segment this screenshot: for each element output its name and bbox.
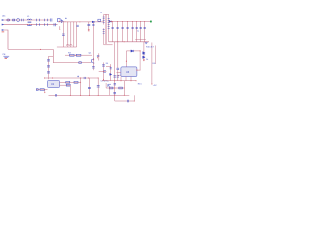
- resistor R16 on mid row: [103, 71, 106, 73]
- wire primary drop 3: [73, 22, 75, 47]
- svg-text:+5V: +5V: [153, 85, 157, 87]
- junction fb cross: [114, 88, 115, 89]
- junction sense drop: [126, 61, 127, 62]
- transformer T1 top link: [104, 13, 109, 15]
- capacitor C21: [102, 65, 105, 66]
- wire cs pin row: [60, 84, 71, 86]
- svg-text:R15: R15: [138, 84, 143, 86]
- resistor R7: [74, 81, 78, 83]
- wire opto branch: [117, 42, 119, 68]
- node VOUT terminal: [150, 21, 152, 23]
- wire mid corner: [106, 65, 111, 67]
- wire PE rail: [8, 48, 53, 50]
- junction mid a: [103, 71, 104, 72]
- wire mid row: [99, 71, 107, 73]
- junction U3 right: [136, 70, 137, 71]
- junction bridge out: [59, 21, 60, 22]
- capacitor C16: [140, 21, 142, 42]
- common-mode choke L1 top winding: [27, 19, 31, 20]
- junction choke: [26, 23, 29, 26]
- capacitor C12: [122, 21, 124, 42]
- junction D2: [111, 21, 112, 22]
- diode D4: [110, 73, 112, 75]
- wire lower row: [115, 100, 135, 102]
- connector pin PE: [2, 29, 4, 31]
- wire U3 bottom rail: [102, 80, 136, 82]
- transistor Q1: [92, 59, 95, 64]
- capacitor C11: [117, 21, 119, 42]
- capacitor C15: [136, 21, 138, 42]
- junction vdd3: [88, 77, 89, 78]
- capacitor C24 pair b: [117, 76, 119, 77]
- transformer T1 primary winding: [103, 14, 105, 24]
- wire N bottom: [4, 24, 58, 26]
- zener ZD1 chain: [143, 42, 145, 61]
- wire sense vertical: [98, 53, 100, 60]
- junction rail3: [89, 95, 90, 96]
- wire fb drop: [123, 81, 125, 96]
- wire right aux vertical: [155, 46, 157, 65]
- connector pin N: [2, 24, 4, 26]
- capacitor C23 on drop4: [76, 25, 78, 26]
- junction lower row: [134, 101, 135, 102]
- junction rail4: [98, 95, 99, 96]
- capacitor C18 on vertical: [113, 92, 116, 93]
- wire vdd top row: [44, 77, 98, 79]
- wire secondary ground rail: [109, 41, 149, 43]
- junction fb row: [124, 88, 125, 89]
- bridge rectifier BD1: [50, 19, 63, 27]
- wire U3 pin drop 2: [125, 77, 127, 81]
- wire output bus: [109, 21, 150, 23]
- capacitor CX1: [22, 19, 24, 21]
- junction Q1: [93, 59, 94, 60]
- wire primary drop 4: [76, 22, 78, 47]
- junction drop1: [66, 21, 69, 24]
- wire sense drop: [125, 51, 127, 67]
- wire lower stub: [133, 95, 135, 101]
- junction vdd0: [44, 78, 45, 79]
- junction br1: [114, 80, 115, 81]
- junction br4: [136, 80, 137, 81]
- junction vdd2: [80, 77, 81, 78]
- node bridge plus: [65, 18, 66, 19]
- resistor R3: [70, 54, 75, 56]
- resistor R9: [40, 89, 44, 91]
- resistor R4: [76, 54, 81, 56]
- wire start drop: [44, 90, 46, 94]
- resistor R5: [97, 55, 99, 56]
- wire mid column b: [110, 64, 112, 81]
- wire primary drop 1: [67, 22, 69, 47]
- wire cap chain top: [49, 55, 54, 57]
- wire primary drop 2: [70, 22, 72, 47]
- junction vcc row: [75, 55, 76, 56]
- common-mode choke L1 core: [28, 21, 32, 24]
- junction br3: [131, 80, 132, 81]
- diode D1: [92, 21, 94, 23]
- svg-text:PE: PE: [3, 54, 6, 56]
- resistor R8: [66, 84, 70, 86]
- junction bridge minus: [58, 28, 61, 31]
- wire bridge to verticals: [58, 21, 104, 23]
- svg-text:1u: 1u: [137, 30, 139, 32]
- junction PE rail: [40, 49, 41, 50]
- transformer T1 aux winding: [103, 28, 105, 35]
- svg-text:R10 4k7: R10 4k7: [146, 46, 155, 48]
- transformer T1 secondary winding: [108, 14, 110, 42]
- capacitor C22: [110, 68, 112, 69]
- capacitor CX2: [37, 19, 40, 26]
- capacitor C5: [88, 78, 91, 95]
- capacitor chain Y1: [47, 56, 50, 79]
- resistor R6: [66, 81, 70, 83]
- wire L top: [4, 19, 50, 21]
- svg-text:L1: L1: [27, 16, 30, 18]
- junction br2: [121, 80, 122, 81]
- connector pin L: [2, 19, 4, 21]
- wire feedback left vertical: [114, 42, 116, 101]
- svg-text:AC: AC: [2, 15, 5, 18]
- capacitor C4 series: [84, 77, 85, 79]
- junction vdd1: [52, 77, 53, 78]
- wire aux corner: [53, 49, 91, 62]
- wire vdd drop: [80, 78, 82, 95]
- capacitor C6: [97, 78, 100, 96]
- wire start pin: [37, 89, 48, 91]
- wire opto drop: [108, 87, 110, 95]
- capacitor C20: [127, 100, 128, 103]
- junction rail2: [80, 95, 81, 96]
- opto U2: [108, 84, 111, 87]
- capacitor C1 bulk vertical: [62, 22, 65, 47]
- capacitor C3 on drain: [92, 24, 94, 25]
- junction rail a: [117, 41, 118, 42]
- IC U3: [121, 67, 137, 77]
- wire mid column a: [103, 62, 105, 80]
- wire opto left stub: [105, 83, 107, 88]
- junction bulk top: [64, 20, 67, 23]
- wire sense row: [126, 50, 140, 52]
- wire cs drop: [69, 85, 71, 95]
- IC U1: [48, 81, 60, 88]
- svg-text:Q1: Q1: [89, 52, 93, 54]
- node PE red mark: [2, 31, 5, 33]
- wire PE: [4, 30, 8, 49]
- wire fb row: [106, 87, 124, 89]
- capacitor C14: [132, 21, 134, 42]
- junction rail1: [70, 95, 71, 96]
- junction right sense: [151, 83, 152, 84]
- wire transformer bottom: [104, 44, 113, 46]
- capacitor C8 on collector: [92, 67, 95, 68]
- junction left rail: [114, 95, 115, 96]
- node start mark: [36, 89, 38, 91]
- fuse F1: [7, 19, 10, 21]
- capacitor C13: [127, 21, 129, 42]
- svg-text:1k: 1k: [146, 59, 149, 61]
- junction rail b: [124, 41, 125, 42]
- snubber clamp branch: [87, 22, 90, 31]
- wire fb pin row: [60, 81, 81, 83]
- wire U3 pin stub: [118, 74, 121, 76]
- wire opto branch lower: [117, 70, 119, 81]
- svg-text:T1: T1: [100, 12, 103, 14]
- capacitor C24 pair a: [114, 76, 116, 77]
- junction start: [44, 92, 45, 93]
- common-mode choke L1 bottom winding: [27, 25, 31, 26]
- capacitor C17: [144, 21, 146, 42]
- wire bulk rail: [57, 46, 77, 48]
- junction mid a2: [103, 79, 104, 80]
- capacitor CX3: [45, 19, 48, 26]
- resistor R11: [109, 87, 113, 89]
- wire Q1 collector lower: [92, 62, 94, 70]
- junction snubber wire: [78, 20, 81, 23]
- transformer T1 core: [105, 14, 106, 44]
- wire aux return: [103, 36, 105, 45]
- wire cap bottom link: [135, 39, 146, 41]
- wire primary ground rail: [49, 94, 130, 96]
- inductor winding bumps: [66, 44, 72, 45]
- resistor R14 on aux wire: [79, 62, 82, 64]
- junction choke b: [30, 23, 33, 26]
- wire U3 right pin: [137, 69, 141, 71]
- resistor R12: [119, 87, 123, 89]
- thermistor RT1: [17, 19, 20, 22]
- wire U3 pin drop 3: [130, 77, 132, 81]
- wire bridge minus stub: [59, 26, 61, 29]
- junction drop3: [72, 21, 75, 24]
- ground symbol secondary: [145, 43, 148, 44]
- wire U3 left pin: [117, 71, 121, 73]
- capacitor C7 on rail: [55, 94, 56, 97]
- wire right sense vertical: [151, 43, 153, 85]
- ground symbol chassis: [3, 54, 10, 59]
- junction sense row: [140, 50, 141, 51]
- capacitor C18b on vertical: [114, 84, 116, 85]
- node plus mark: [77, 76, 79, 78]
- wire U3 pin drop 1: [120, 77, 122, 81]
- wire drain vertical: [92, 22, 94, 62]
- capacitor C19: [117, 68, 120, 69]
- varistor RV1: [13, 19, 15, 21]
- junction fb rail: [124, 95, 125, 96]
- resistor R2: [98, 19, 101, 21]
- junction fb: [80, 82, 81, 83]
- junction sense: [97, 57, 98, 58]
- wire vcc row: [65, 54, 92, 56]
- svg-text:D4: D4: [106, 63, 108, 65]
- capacitor C10: [112, 21, 114, 42]
- wire ref vertical: [139, 51, 141, 70]
- diode D2 output rectifier: [109, 21, 111, 23]
- diode D5: [131, 50, 134, 52]
